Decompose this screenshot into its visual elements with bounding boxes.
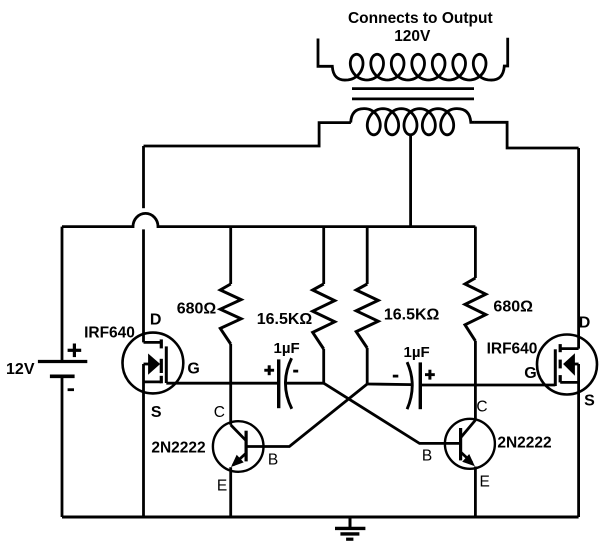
- label M1 IRF640: [84, 325, 135, 342]
- wire: primary right lead to right rail: [474, 122, 578, 148]
- svg-text:680Ω: 680Ω: [177, 301, 217, 318]
- wire: node B to Q1 base (diagonal): [246, 384, 367, 447]
- svg-text:12V: 12V: [6, 361, 35, 378]
- svg-text:1µF: 1µF: [274, 340, 300, 357]
- battery B1 negative plate: [50, 374, 75, 378]
- svg-text:B: B: [268, 452, 278, 469]
- wire: right MOSFET source to ground bus: [577, 364, 580, 517]
- label Q2 E: [480, 474, 490, 491]
- capacitor C1 positive plate: [277, 359, 280, 408]
- wire: node B to C2: [367, 383, 411, 386]
- transistor Q2 collector line: [461, 420, 476, 438]
- svg-text:B: B: [422, 448, 432, 465]
- svg-text:680Ω: 680Ω: [493, 299, 533, 316]
- wire: battery positive lead: [61, 227, 64, 362]
- transformer T1 core: [352, 89, 474, 99]
- MOSFET M1 source bar: [144, 380, 162, 383]
- label Q2 C: [476, 399, 487, 416]
- svg-text:S: S: [584, 393, 595, 410]
- svg-text:C: C: [476, 399, 487, 416]
- svg-text:G: G: [187, 361, 199, 378]
- wire: R3 bottom lead to node B: [366, 348, 369, 384]
- capacitor C1 negative curved plate: [285, 358, 291, 409]
- label 16.5Kohm left: [257, 311, 313, 328]
- MOSFET M2 source bar: [560, 381, 578, 384]
- wire: Q2 emitter to ground bus: [474, 467, 477, 518]
- wire: 680ohm right top lead: [474, 227, 477, 278]
- label Q1 B: [268, 452, 278, 469]
- resistor R3 16.5Kohm (right): [356, 284, 378, 348]
- MOSFET M2 substrate arrow: [563, 353, 579, 376]
- wire: ground bus: [62, 516, 579, 519]
- MOSFET M2 gate bar: [554, 349, 557, 386]
- wire: +12V supply bus with crossover hop: [62, 213, 475, 226]
- transistor Q2 2N2222 body circle: [445, 419, 495, 469]
- svg-text:120V: 120V: [394, 28, 431, 45]
- transistor Q1 base bar: [245, 431, 248, 462]
- label Q1 2N2222: [151, 440, 205, 457]
- wire: 16.5K left top lead: [322, 227, 325, 284]
- capacitor C2 positive plate: [419, 362, 422, 409]
- wire: C1 to node A: [286, 382, 325, 385]
- label Q1 E: [217, 478, 227, 495]
- label Q2 2N2222: [497, 435, 551, 452]
- label Q1 C: [214, 404, 225, 421]
- wire: C2 to M2 gate line: [420, 384, 555, 387]
- resistor R4 680ohm (right): [465, 278, 486, 341]
- transistor Q2 emitter line with arrow: [461, 452, 475, 466]
- MOSFET M2 IRF640 body circle: [537, 335, 597, 395]
- transformer T1 center-tapped primary winding: [351, 109, 475, 135]
- label M1 G: [187, 361, 199, 378]
- MOSFET M2 channel dashes: [559, 344, 562, 382]
- label C2 -: [393, 375, 399, 378]
- label M2 D: [579, 315, 591, 332]
- svg-text:E: E: [217, 478, 227, 495]
- label M1 D: [150, 312, 162, 329]
- label M2 S: [584, 393, 595, 410]
- battery B1 positive plate: [38, 360, 87, 363]
- label M2 G: [524, 365, 536, 382]
- label 680ohm right: [493, 299, 533, 316]
- label Q2 B: [422, 448, 432, 465]
- wire: left MOSFET drain rail (top): [142, 146, 145, 208]
- label M1 S: [151, 404, 162, 421]
- svg-text:2N2222: 2N2222: [497, 435, 551, 452]
- label C1 1uF: [274, 340, 300, 357]
- wire: left MOSFET source to ground bus: [142, 364, 145, 517]
- svg-text:1µF: 1µF: [404, 344, 430, 361]
- wire: left MOSFET drain rail (below hop): [142, 229, 145, 342]
- label 680ohm left: [177, 301, 217, 318]
- label C1 -: [293, 370, 298, 373]
- wire: center tap down to supply bus: [409, 135, 412, 227]
- MOSFET M2 drain bar: [560, 347, 578, 350]
- svg-text:16.5KΩ: 16.5KΩ: [384, 307, 440, 324]
- wire: R4 to Q2 collector / gate-line node: [474, 341, 477, 420]
- MOSFET M1 gate bar: [165, 346, 168, 383]
- MOSFET M1 substrate arrow: [144, 354, 161, 375]
- wire: battery negative lead: [61, 376, 64, 517]
- MOSFET M1 drain bar: [144, 341, 162, 344]
- label battery +: [68, 344, 82, 358]
- svg-text:16.5KΩ: 16.5KΩ: [257, 311, 313, 328]
- MOSFET M1 channel dashes: [160, 339, 163, 383]
- svg-text:C: C: [214, 404, 225, 421]
- wire: M1 gate line to C1: [166, 382, 278, 385]
- wire: 680ohm left top lead: [229, 227, 232, 284]
- label 120V: [394, 28, 431, 45]
- svg-text:2N2222: 2N2222: [151, 440, 205, 457]
- label 16.5Kohm right: [384, 307, 440, 324]
- label C2 1uF: [404, 344, 430, 361]
- resistor R1 680ohm (left): [220, 284, 241, 344]
- svg-text:IRF640: IRF640: [487, 341, 538, 358]
- svg-text:D: D: [579, 315, 591, 332]
- transistor Q1 2N2222 body circle: [213, 421, 264, 472]
- resistor R2 16.5Kohm (left): [313, 284, 335, 349]
- label M2 IRF640: [487, 341, 538, 358]
- svg-text:IRF640: IRF640: [84, 325, 135, 342]
- wire: 16.5K right top lead: [366, 227, 369, 284]
- label 12V: [6, 361, 35, 378]
- svg-text:Connects to Output: Connects to Output: [348, 10, 493, 27]
- svg-text:S: S: [151, 404, 162, 421]
- wire: R1 to Q1 collector / gate-line node: [229, 344, 232, 425]
- capacitor C2 negative curved plate: [407, 362, 412, 409]
- label Connects to Output: [348, 10, 493, 27]
- MOSFET M1 IRF640 body circle: [122, 333, 183, 394]
- wire: R2 bottom lead to node A: [322, 349, 325, 383]
- transistor Q1 emitter line with arrow: [231, 453, 246, 467]
- wire: node A to Q2 base (diagonal): [324, 383, 461, 443]
- label C1 +: [264, 365, 274, 375]
- label C2 +: [425, 370, 435, 380]
- ground: [335, 517, 365, 539]
- wire: primary left lead to left rail: [144, 123, 351, 146]
- wire: Q1 emitter to ground bus: [229, 467, 232, 517]
- transistor Q1 collector line: [231, 425, 246, 441]
- transformer T1 output winding (Connects to Output): [318, 38, 508, 80]
- svg-text:G: G: [524, 365, 536, 382]
- label battery -: [68, 388, 74, 391]
- wire: right MOSFET drain rail: [577, 148, 580, 349]
- svg-text:E: E: [480, 474, 490, 491]
- transistor Q2 base bar: [459, 428, 462, 460]
- svg-text:D: D: [150, 312, 162, 329]
